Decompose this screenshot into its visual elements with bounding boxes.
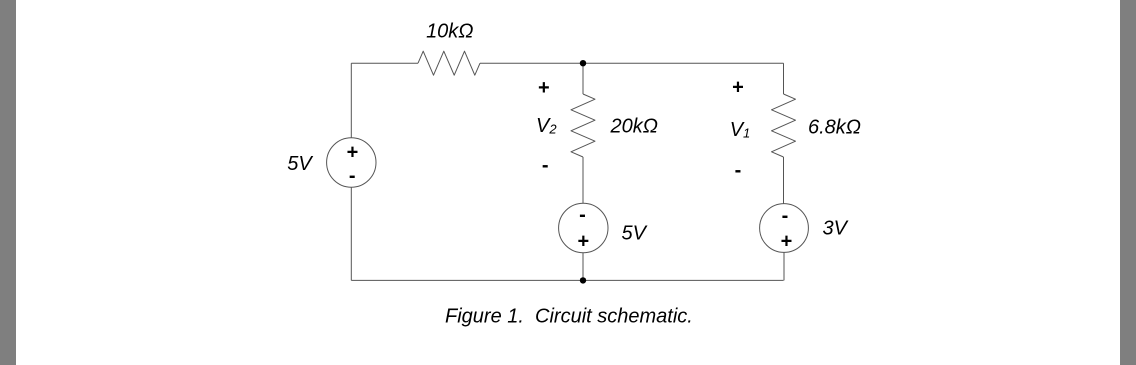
wire: right branch from top-right corner to 6.8k resistor — [783, 63, 785, 94]
node junction dot (top, between 10k / 20k / 6.8k) — [580, 60, 586, 66]
svg-text:Figure 1. Circuit schematic.: Figure 1. Circuit schematic. — [445, 305, 693, 327]
resistor 6.8kOhm (right vertical) — [772, 94, 796, 157]
wire: right branch from 6.8k resistor to right source — [783, 157, 785, 204]
svg-text:-: - — [579, 204, 586, 226]
svg-text:-: - — [542, 155, 549, 177]
svg-text:+: + — [347, 141, 359, 163]
wire: top horizontal segment right of 10k resistor to top-right corner — [480, 62, 784, 64]
voltage source 5V (middle) circle — [559, 203, 608, 252]
svg-text:+: + — [732, 77, 744, 99]
resistor 10kOhm (top horizontal) — [418, 51, 480, 75]
wire: middle branch from middle source to bottom node — [582, 253, 584, 281]
voltage source 5V (left) circle — [327, 138, 376, 187]
wire: middle branch from top node to 20k resistor — [582, 63, 584, 94]
wire: middle branch from 20k resistor to middle source — [582, 157, 584, 203]
svg-text:3V: 3V — [823, 217, 849, 239]
svg-text:10kΩ: 10kΩ — [426, 21, 473, 43]
wire: right branch from right source to bottom-right corner — [783, 252, 785, 280]
svg-text:V2: V2 — [536, 115, 557, 137]
wire: top horizontal segment left of 10k resistor — [351, 62, 418, 64]
svg-text:V1: V1 — [730, 119, 751, 141]
svg-text:-: - — [735, 159, 742, 181]
left gray sidebar — [0, 0, 16, 365]
resistor 20kOhm (middle vertical) — [571, 94, 595, 157]
node junction dot (bottom) — [580, 277, 586, 283]
wire: bottom horizontal segment — [351, 279, 783, 281]
svg-text:+: + — [781, 231, 793, 253]
wire: left vertical segment (top, from top-left corner to left source) — [350, 63, 352, 138]
svg-text:5V: 5V — [287, 153, 313, 175]
svg-text:5V: 5V — [622, 222, 648, 244]
svg-text:-: - — [782, 205, 789, 227]
voltage source 3V (right) circle — [760, 204, 809, 253]
svg-text:+: + — [577, 231, 589, 253]
svg-text:20kΩ: 20kΩ — [610, 115, 658, 137]
svg-text:6.8kΩ: 6.8kΩ — [808, 117, 861, 139]
svg-text:+: + — [538, 77, 550, 99]
svg-text:-: - — [349, 165, 356, 187]
wire: left vertical segment (bottom, from left source to bottom-left corner) — [350, 187, 352, 280]
right gray sidebar — [1120, 0, 1136, 365]
